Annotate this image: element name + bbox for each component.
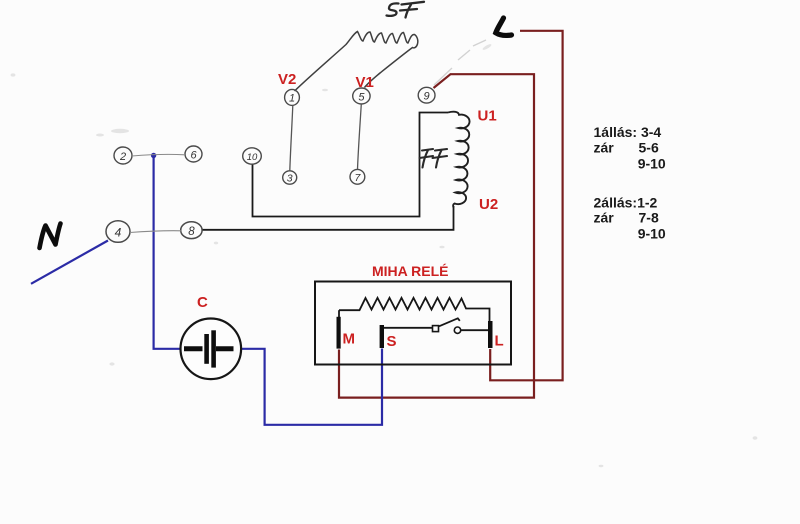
svg-text:10: 10 xyxy=(247,152,258,163)
svg-text:zár: zár xyxy=(594,210,615,226)
svg-text:7-8: 7-8 xyxy=(639,210,659,226)
relay M terminal bar xyxy=(337,317,341,349)
svg-text:S: S xyxy=(387,333,397,350)
label FF xyxy=(420,149,448,168)
wire from terminal 10 to coil U1 top xyxy=(253,113,449,217)
terminal 7 xyxy=(350,169,365,184)
label SF xyxy=(387,2,425,18)
label N (neutral) xyxy=(40,224,61,249)
relay box MIHA RELE xyxy=(315,282,511,365)
info text: position table xyxy=(594,124,666,242)
wire pencil 5-7 xyxy=(358,104,362,169)
svg-text:V2: V2 xyxy=(278,71,296,88)
wire blue from capacitor right to relay S terminal xyxy=(232,349,382,425)
resistor left lead down to M terminal xyxy=(338,310,340,317)
terminal 6 xyxy=(185,146,202,162)
wire pencil 4-8 xyxy=(130,231,181,233)
svg-text:5-6: 5-6 xyxy=(639,140,659,156)
inductor coil FF (U1-U2) xyxy=(448,112,470,208)
svg-text:1állás: 3-4: 1állás: 3-4 xyxy=(594,124,662,140)
svg-text:M: M xyxy=(343,331,356,348)
terminal 2 xyxy=(114,147,132,164)
svg-text:zár: zár xyxy=(594,140,615,156)
wire blue from node between 2-6 down to capacitor xyxy=(154,155,183,349)
relay coil resistor zigzag xyxy=(339,298,490,321)
svg-text:V1: V1 xyxy=(356,74,374,91)
node junction dot on 2-6 line xyxy=(151,153,156,158)
terminal 8 xyxy=(181,222,202,239)
terminal 4 xyxy=(106,221,130,243)
svg-text:5: 5 xyxy=(358,92,365,104)
wire pencil 1-3 xyxy=(290,105,293,170)
relay switch wire from S xyxy=(384,327,433,329)
terminal 3 xyxy=(283,171,297,184)
svg-text:9: 9 xyxy=(424,91,430,103)
wire from terminal 8 to coil U2 bottom xyxy=(202,206,454,230)
relay switch wire to L xyxy=(461,329,488,331)
relay switch lever xyxy=(439,318,460,326)
svg-text:9-10: 9-10 xyxy=(638,226,666,242)
svg-text:L: L xyxy=(495,333,504,350)
relay switch left contact (square) xyxy=(433,326,439,332)
switch SF squiggle wire from terminal 1 to terminal 5 xyxy=(295,32,418,92)
svg-text:9-10: 9-10 xyxy=(638,155,666,171)
relay switch right contact (circle) xyxy=(454,327,460,333)
wire dark-red from terminal 9 to relay M terminal xyxy=(339,74,534,397)
relay S terminal bar xyxy=(380,325,384,348)
svg-text:6: 6 xyxy=(190,150,197,162)
svg-text:U1: U1 xyxy=(478,108,497,125)
relay L terminal bar xyxy=(488,321,493,348)
svg-text:3: 3 xyxy=(287,173,293,185)
terminal 5 xyxy=(353,88,370,104)
wire pencil 2-6 xyxy=(132,154,185,156)
faint erased pencil line from terminal 9 toward SF xyxy=(434,40,486,85)
wire dark-red from L down right side to relay L terminal xyxy=(490,31,562,381)
svg-text:1: 1 xyxy=(289,93,295,105)
svg-text:C: C xyxy=(197,294,208,311)
svg-text:4: 4 xyxy=(115,226,122,240)
svg-text:2állás:1-2: 2állás:1-2 xyxy=(594,195,658,211)
svg-text:2: 2 xyxy=(119,151,126,163)
terminal 10 xyxy=(243,148,262,164)
wire blue N lead to terminal 4 xyxy=(31,241,108,284)
svg-text:8: 8 xyxy=(188,226,195,238)
svg-text:U2: U2 xyxy=(479,196,498,213)
terminal 1 xyxy=(285,89,300,105)
svg-text:MIHA RELÉ: MIHA RELÉ xyxy=(372,263,448,279)
label L (line) xyxy=(496,18,512,35)
capacitor C xyxy=(181,319,242,380)
terminal 9 xyxy=(418,87,435,103)
